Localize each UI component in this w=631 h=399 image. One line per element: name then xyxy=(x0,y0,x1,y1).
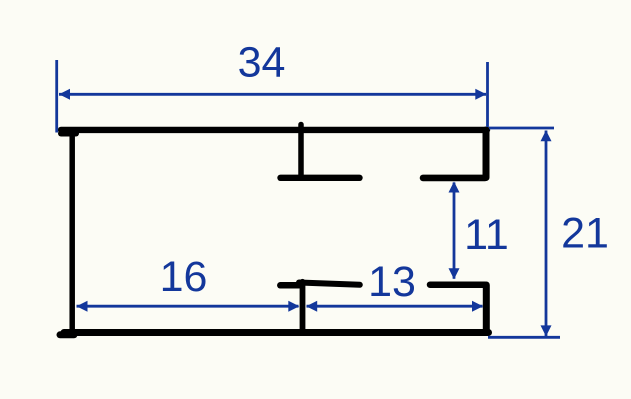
svg-text:21: 21 xyxy=(561,210,609,258)
dimension line 13 xyxy=(307,305,483,308)
arrowhead 21 top xyxy=(541,130,552,141)
extension line left for dim 34 xyxy=(55,60,58,133)
dimension line 21 xyxy=(545,131,548,337)
bottom plate left end cap stroke xyxy=(60,331,74,338)
bottom right flange xyxy=(430,281,485,288)
arrowhead 13 right xyxy=(472,301,483,312)
dimension line 34 xyxy=(59,93,486,96)
extension line top for dim 21 xyxy=(489,127,554,130)
arrowhead 34 left xyxy=(59,89,70,100)
arrowhead 11 top xyxy=(449,182,460,193)
arrowhead 34 right xyxy=(475,89,486,100)
bottom left flange xyxy=(280,282,299,289)
svg-text:13: 13 xyxy=(368,258,416,306)
top right wall xyxy=(483,130,490,178)
top left flange xyxy=(281,175,360,181)
top plate left end cap stroke xyxy=(61,131,76,137)
extension line bottom for dim 21 xyxy=(488,336,560,339)
bottom mid flange xyxy=(299,283,360,285)
arrowhead 16 left xyxy=(77,301,88,312)
svg-text:11: 11 xyxy=(464,211,509,259)
arrowhead 21 bottom xyxy=(541,325,552,336)
arrowhead 16 right xyxy=(288,301,299,312)
arrowhead 11 bottom xyxy=(449,268,460,279)
svg-text:34: 34 xyxy=(238,39,286,87)
bottom web xyxy=(300,282,306,331)
dimension line 16 xyxy=(77,305,299,308)
top plate xyxy=(61,127,487,133)
bottom right wall xyxy=(483,285,490,332)
dimension line 11 xyxy=(453,183,456,279)
arrowhead 13 left xyxy=(306,301,317,312)
extension line right for dim 34 xyxy=(486,62,489,127)
top right flange xyxy=(423,175,485,182)
left wall xyxy=(69,132,75,334)
bottom plate xyxy=(64,329,489,336)
top web xyxy=(298,125,304,176)
svg-text:16: 16 xyxy=(160,253,208,301)
